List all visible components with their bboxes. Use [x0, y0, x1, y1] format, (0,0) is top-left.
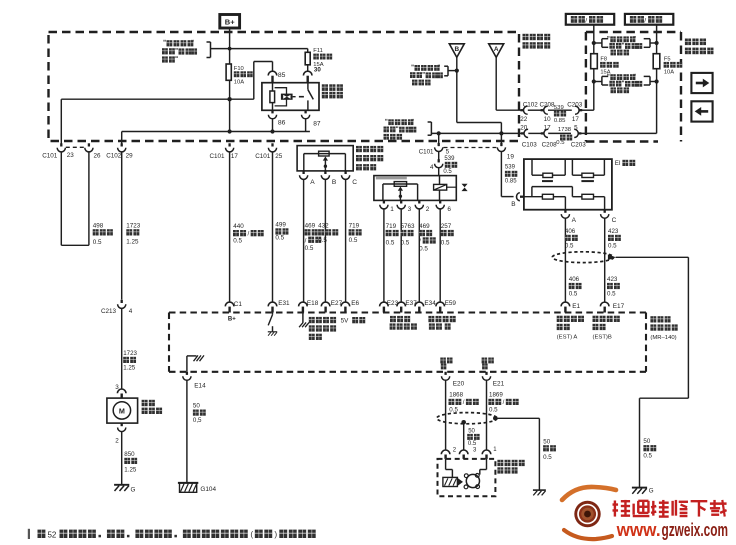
svg-text:498: 498 [93, 222, 104, 229]
svg-text:E21: E21 [493, 381, 505, 388]
svg-text:719: 719 [349, 222, 360, 229]
svg-text:22: 22 [520, 116, 528, 123]
svg-text:23: 23 [67, 152, 75, 159]
svg-text:/: / [585, 17, 587, 24]
svg-text:1723: 1723 [123, 350, 137, 357]
svg-text:www.: www. [616, 520, 661, 540]
svg-text:G: G [649, 487, 654, 494]
svg-text:F11: F11 [313, 48, 323, 54]
svg-text:539: 539 [505, 165, 516, 171]
svg-text:0.5: 0.5 [643, 453, 652, 460]
svg-text:C101: C101 [42, 153, 58, 160]
svg-text:10: 10 [544, 116, 552, 123]
svg-text:406: 406 [569, 276, 580, 283]
svg-text:10A: 10A [234, 80, 244, 86]
svg-text:6: 6 [447, 206, 451, 213]
svg-text:0.5: 0.5 [318, 237, 327, 244]
svg-text:719: 719 [386, 223, 397, 230]
svg-text:0.5: 0.5 [401, 240, 410, 247]
svg-text:87: 87 [313, 121, 321, 128]
svg-text:(: ( [250, 529, 253, 539]
svg-text:C208: C208 [540, 101, 556, 108]
svg-text:1: 1 [390, 206, 394, 213]
svg-text:29: 29 [126, 152, 134, 159]
svg-text:2: 2 [115, 437, 119, 444]
svg-text:423: 423 [608, 228, 619, 235]
svg-text:5763: 5763 [401, 223, 416, 230]
svg-text:440: 440 [233, 223, 244, 230]
svg-text:B: B [332, 179, 337, 186]
svg-text:A: A [310, 179, 315, 186]
svg-text:423: 423 [607, 276, 618, 283]
svg-text:539: 539 [554, 105, 564, 111]
svg-text:F8: F8 [600, 56, 607, 62]
svg-text:F5: F5 [664, 56, 671, 62]
svg-text:86: 86 [278, 120, 286, 127]
svg-text:257: 257 [441, 223, 452, 230]
svg-text:B: B [511, 201, 515, 208]
svg-text:): ) [274, 529, 277, 539]
svg-text:1723: 1723 [126, 222, 141, 229]
svg-text:469: 469 [305, 222, 316, 229]
svg-text:1.25: 1.25 [126, 239, 139, 246]
svg-text:C: C [612, 217, 617, 224]
svg-text:0.5: 0.5 [441, 240, 450, 247]
svg-text:E6: E6 [351, 300, 359, 307]
svg-text:/: / [419, 238, 421, 245]
svg-text:G104: G104 [200, 486, 216, 493]
svg-text:C102: C102 [106, 152, 122, 159]
svg-text:B: B [454, 46, 459, 53]
svg-text:5: 5 [446, 148, 450, 155]
svg-text:1738: 1738 [558, 127, 572, 133]
svg-text:C: C [352, 179, 357, 186]
svg-text:0.5: 0.5 [305, 245, 314, 252]
svg-text:E14: E14 [194, 383, 206, 390]
svg-text:406: 406 [565, 228, 576, 235]
svg-text:0.85: 0.85 [554, 118, 566, 124]
svg-text:2: 2 [426, 206, 430, 213]
svg-text:C1: C1 [234, 301, 243, 308]
svg-text:26: 26 [94, 152, 102, 159]
svg-text:19: 19 [507, 153, 515, 160]
svg-text:B+: B+ [228, 317, 236, 323]
svg-text:/: / [305, 237, 307, 244]
svg-text:C101: C101 [210, 153, 226, 160]
svg-text:C203: C203 [571, 142, 587, 149]
svg-text:A: A [494, 46, 499, 53]
svg-text:499: 499 [275, 221, 286, 228]
svg-text:1869: 1869 [489, 392, 503, 399]
svg-text:C213: C213 [101, 308, 117, 315]
svg-text:50: 50 [643, 438, 650, 445]
svg-text:20: 20 [520, 124, 528, 131]
svg-text:50: 50 [193, 403, 200, 410]
svg-text:0.5: 0.5 [556, 140, 565, 146]
svg-text:3: 3 [408, 206, 412, 213]
svg-text:0.5: 0.5 [233, 238, 242, 245]
svg-text:85: 85 [278, 72, 286, 79]
svg-text:0.5: 0.5 [386, 240, 395, 247]
svg-text:0.5: 0.5 [607, 291, 616, 298]
svg-text:0.5: 0.5 [443, 169, 452, 175]
svg-text:/: / [503, 399, 505, 406]
svg-text:E59: E59 [445, 300, 457, 307]
svg-text:0.5: 0.5 [275, 235, 284, 242]
svg-text:17: 17 [572, 116, 580, 123]
svg-text:0.5: 0.5 [569, 291, 578, 298]
svg-text:850: 850 [124, 451, 135, 458]
svg-text:0.5: 0.5 [565, 243, 574, 250]
svg-text:50: 50 [468, 429, 475, 435]
svg-text:0.5: 0.5 [93, 239, 102, 246]
svg-text:(EST)B: (EST)B [593, 334, 612, 340]
svg-text:E20: E20 [453, 381, 465, 388]
svg-text:E18: E18 [307, 300, 319, 307]
svg-text:C101: C101 [255, 153, 271, 160]
svg-text:30: 30 [314, 67, 321, 74]
svg-text:17: 17 [231, 153, 239, 160]
svg-text:5V: 5V [341, 318, 350, 325]
svg-text:1.25: 1.25 [124, 466, 137, 473]
svg-text:F10: F10 [234, 66, 244, 72]
svg-text:E34: E34 [424, 300, 436, 307]
svg-text:G: G [131, 487, 136, 494]
svg-text:5: 5 [574, 124, 578, 131]
svg-text:0.5: 0.5 [468, 441, 477, 447]
svg-text:0,5: 0,5 [193, 417, 202, 424]
svg-text:0.5: 0.5 [489, 406, 498, 413]
svg-text:50: 50 [543, 438, 550, 445]
svg-text:C203: C203 [567, 101, 583, 108]
svg-text:0.5: 0.5 [543, 454, 552, 461]
svg-text:539: 539 [444, 156, 455, 162]
svg-text:/: / [247, 230, 249, 237]
svg-text:0.5: 0.5 [608, 243, 617, 250]
svg-text:C101: C101 [419, 149, 434, 156]
svg-text:(MR–140): (MR–140) [650, 335, 676, 341]
svg-text:E31: E31 [278, 300, 290, 307]
svg-text:C103: C103 [522, 142, 538, 149]
svg-text:1868: 1868 [449, 392, 463, 399]
svg-text:0.5: 0.5 [419, 246, 428, 253]
svg-text:4: 4 [129, 308, 133, 315]
svg-text:0.5: 0.5 [349, 237, 358, 244]
svg-text:EI: EI [615, 160, 621, 167]
svg-text:0.85: 0.85 [505, 178, 517, 184]
svg-text:C208: C208 [542, 142, 558, 149]
svg-text:1.25: 1.25 [123, 364, 136, 371]
svg-text:(EST) A: (EST) A [557, 334, 578, 340]
svg-text:/: / [644, 17, 646, 24]
svg-text:17: 17 [544, 124, 552, 131]
svg-text:/: / [463, 399, 465, 406]
svg-text:C102: C102 [523, 101, 539, 108]
svg-text:E1: E1 [572, 303, 580, 310]
svg-text:432: 432 [318, 222, 329, 229]
svg-text:E17: E17 [613, 303, 625, 310]
svg-text:M: M [119, 406, 125, 415]
svg-text:B+: B+ [225, 17, 235, 26]
svg-text:A: A [572, 217, 577, 224]
svg-text:25: 25 [275, 153, 283, 160]
svg-text:52: 52 [47, 530, 56, 539]
svg-text:gzweix.com: gzweix.com [662, 520, 729, 540]
svg-text:469: 469 [419, 223, 430, 230]
svg-text:4: 4 [430, 164, 434, 171]
svg-text:10A: 10A [664, 69, 674, 75]
